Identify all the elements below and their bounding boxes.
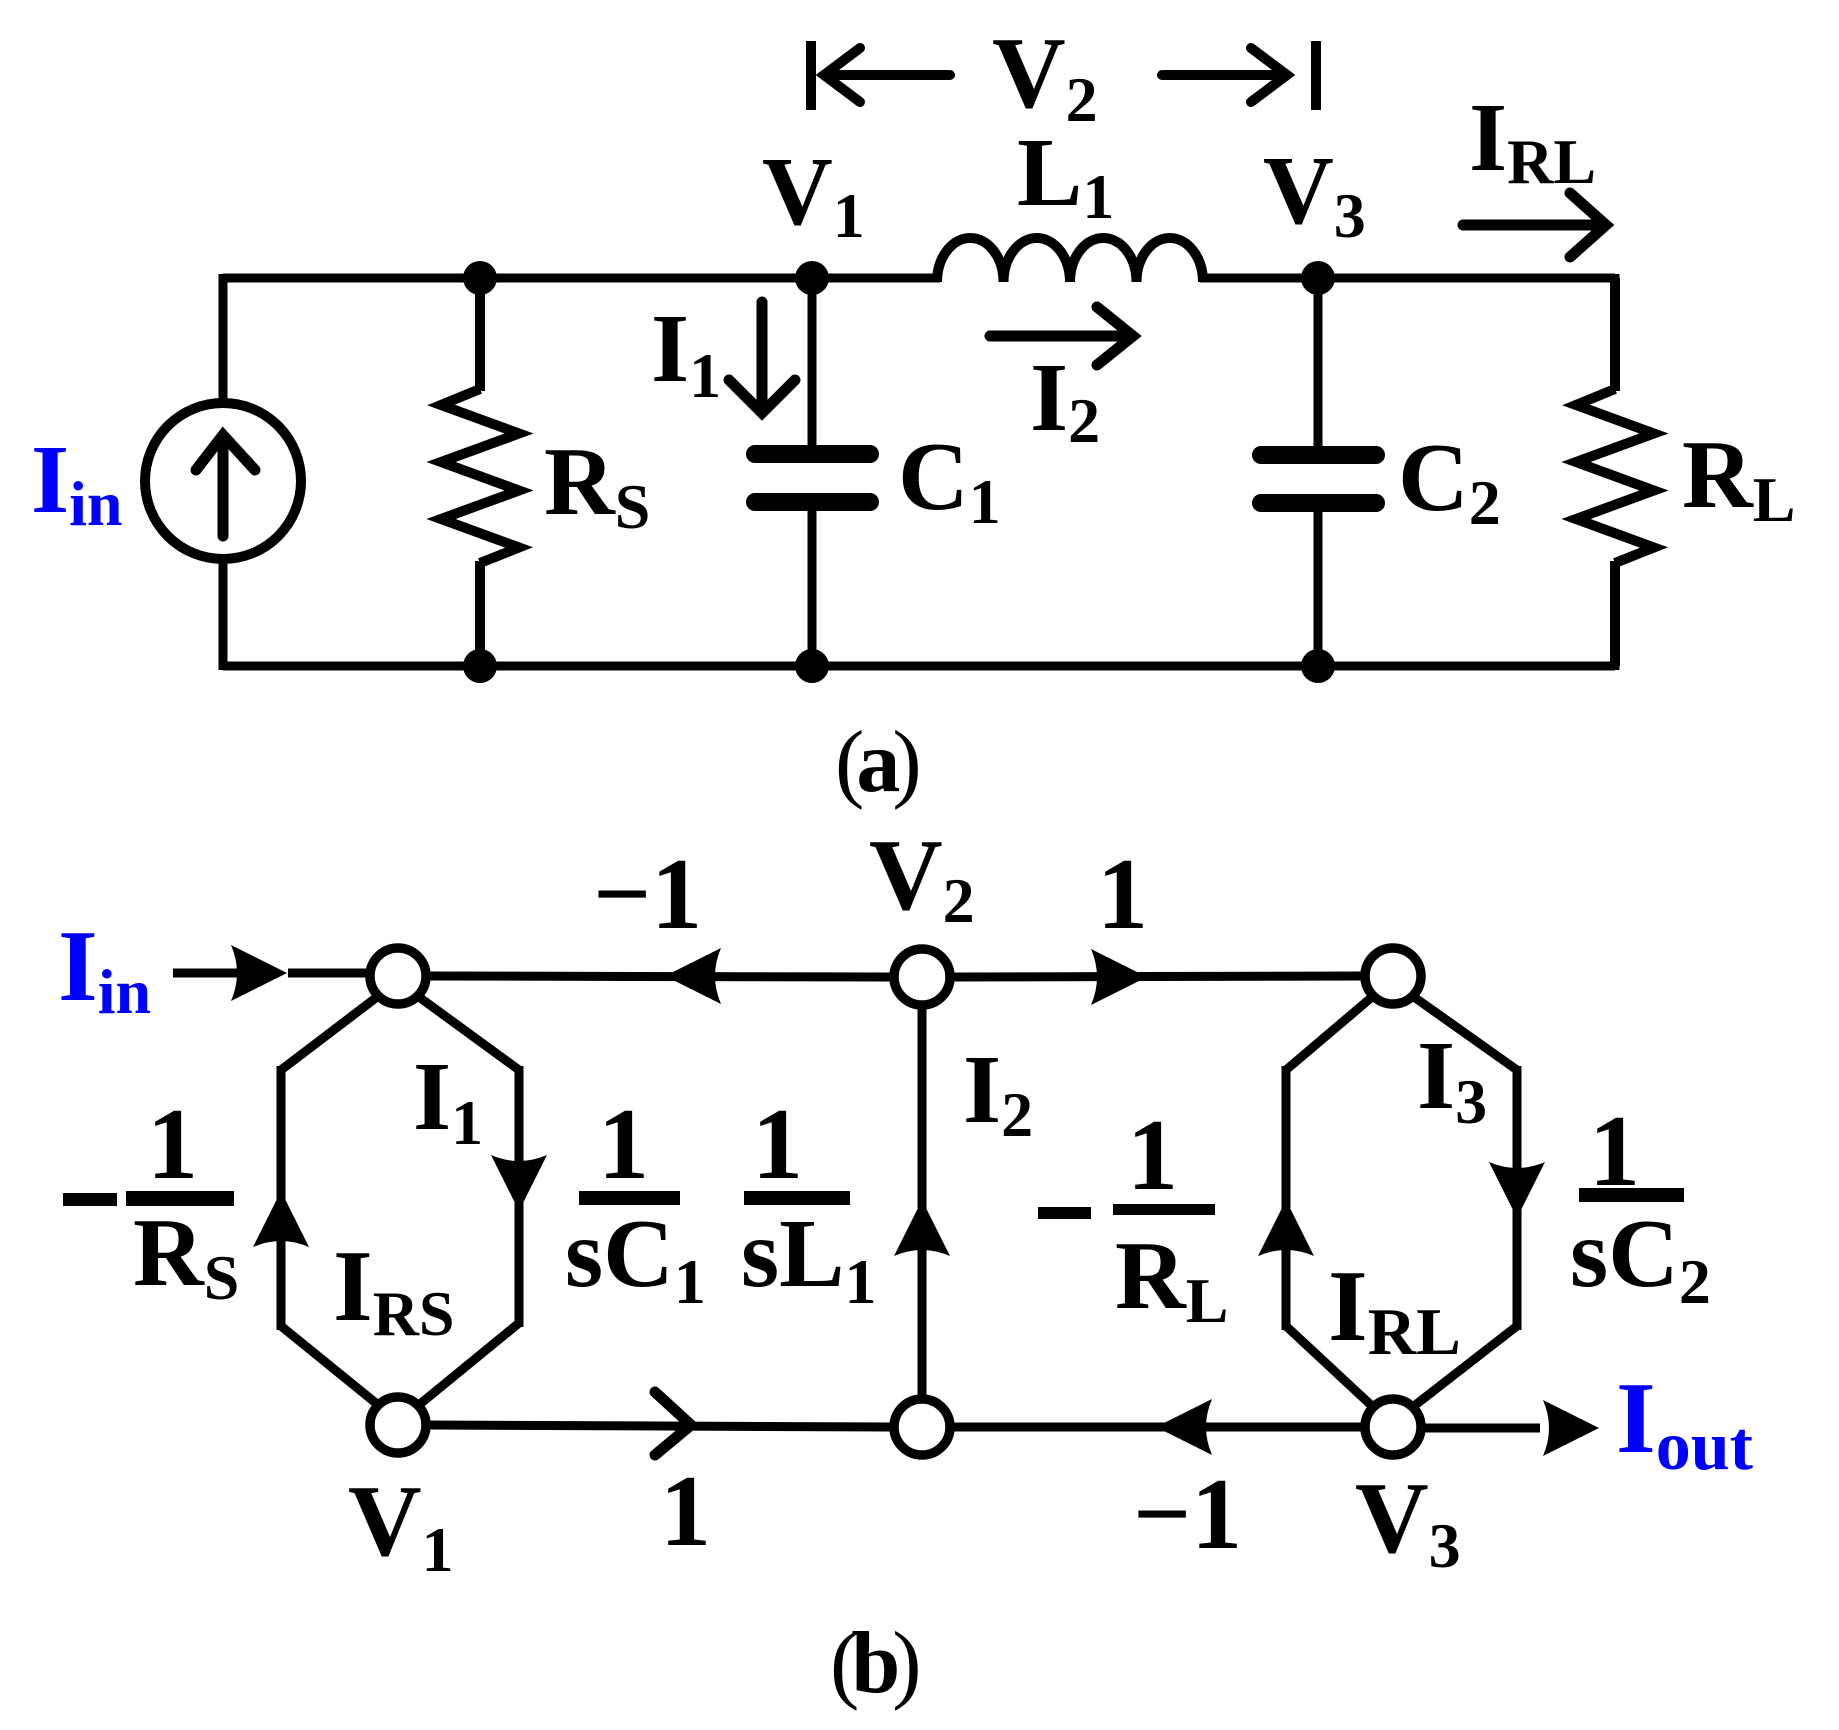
capacitor C1 <box>755 278 870 666</box>
wire right rail upper <box>1611 274 1620 391</box>
I1 arrow <box>729 302 795 413</box>
svg-text:(a): (a) <box>835 714 918 811</box>
arrow Iin feed <box>231 945 287 1001</box>
arrow bottom left chevron <box>655 1392 691 1455</box>
svg-text:1: 1 <box>660 1455 711 1568</box>
svg-text:−1: −1 <box>1133 1458 1242 1571</box>
node V2 circle <box>894 949 950 1005</box>
IRL arrow <box>1463 193 1606 257</box>
arrow I3 down <box>1489 1162 1545 1218</box>
wire BR to Iout <box>1423 1424 1540 1433</box>
left hexagon left lower diagonal <box>281 1326 377 1404</box>
right hexagon left upper diagonal <box>1286 997 1372 1070</box>
node V1 circle <box>370 1397 426 1453</box>
node dot bottom RS <box>463 649 497 683</box>
left hexagon right upper diagonal <box>419 997 519 1070</box>
V2 left arrow <box>824 48 950 102</box>
current source Iin circle <box>145 403 301 559</box>
right hexagon left vertical <box>1282 1066 1291 1330</box>
right hexagon right lower diagonal <box>1414 1326 1517 1406</box>
svg-text:1: 1 <box>752 1088 803 1201</box>
arrow IRL up <box>1258 1200 1314 1256</box>
arrow bottom right (to BM) <box>1156 1399 1212 1455</box>
arrow I1 down <box>491 1155 547 1211</box>
wire left rail lower <box>219 560 228 670</box>
node dot bottom C1 <box>795 649 829 683</box>
left hexagon left vertical <box>277 1066 286 1330</box>
arrow Iout <box>1543 1400 1599 1456</box>
I2 arrow <box>990 307 1133 365</box>
wire TL to V2 <box>428 976 892 977</box>
wire BL to BM <box>428 1425 892 1427</box>
wire left rail upper <box>219 274 228 403</box>
node TR circle <box>1365 948 1421 1004</box>
label -1/RS minus <box>63 1193 117 1206</box>
fraction bar RS <box>126 1191 234 1206</box>
node V3 circle <box>1365 1399 1421 1455</box>
left hexagon right vertical <box>515 1066 524 1327</box>
arrow 1 branch (right) <box>1091 949 1147 1005</box>
svg-text:1: 1 <box>1127 1099 1178 1212</box>
node dot top RS <box>463 261 497 295</box>
capacitor C2 <box>1261 278 1376 666</box>
fraction bar RL <box>1113 1204 1215 1215</box>
wire V2 down to BM <box>918 1007 927 1397</box>
wire bottom rail <box>223 662 1615 671</box>
svg-text:1: 1 <box>147 1088 198 1201</box>
arrow I2 up <box>894 1200 950 1256</box>
node V1 dot <box>795 261 829 295</box>
node dot bottom C2 <box>1301 649 1335 683</box>
right hexagon right vertical <box>1513 1066 1522 1330</box>
label -1/RL minus <box>1038 1207 1091 1219</box>
wire Iin feed <box>173 969 240 978</box>
wire BM to BR <box>952 1423 1363 1432</box>
node BM circle <box>894 1399 950 1455</box>
wire top rail left <box>223 274 940 283</box>
node TL circle <box>370 948 426 1004</box>
inductor L1 <box>937 238 1203 282</box>
svg-text:1: 1 <box>598 1088 649 1201</box>
V2 measurement left tick <box>806 41 816 110</box>
svg-text:1: 1 <box>1097 838 1148 951</box>
wire right rail lower <box>1611 564 1620 670</box>
fraction bar sC2 <box>1579 1188 1684 1202</box>
arrow IRS up <box>253 1191 309 1247</box>
resistor RS <box>441 278 519 666</box>
right hexagon right upper diagonal <box>1414 997 1517 1070</box>
arrow -1 branch (left) <box>665 948 721 1004</box>
fraction bar sC1 <box>579 1191 680 1205</box>
V2 measurement right tick <box>1311 41 1321 110</box>
wire top rail right <box>1200 274 1615 283</box>
wire V2 to TR <box>952 976 1363 977</box>
left hexagon left upper diagonal <box>281 997 377 1070</box>
left hexagon right lower diagonal <box>420 1323 519 1404</box>
svg-text:−1: −1 <box>593 838 702 951</box>
node V3 dot <box>1301 261 1335 295</box>
current source arrow <box>196 435 255 536</box>
fraction bar sL1 <box>744 1191 850 1205</box>
right hexagon left lower diagonal <box>1286 1326 1372 1406</box>
svg-text:(b): (b) <box>830 1615 918 1712</box>
resistor RL <box>1576 278 1654 666</box>
V2 right arrow <box>1162 48 1287 102</box>
